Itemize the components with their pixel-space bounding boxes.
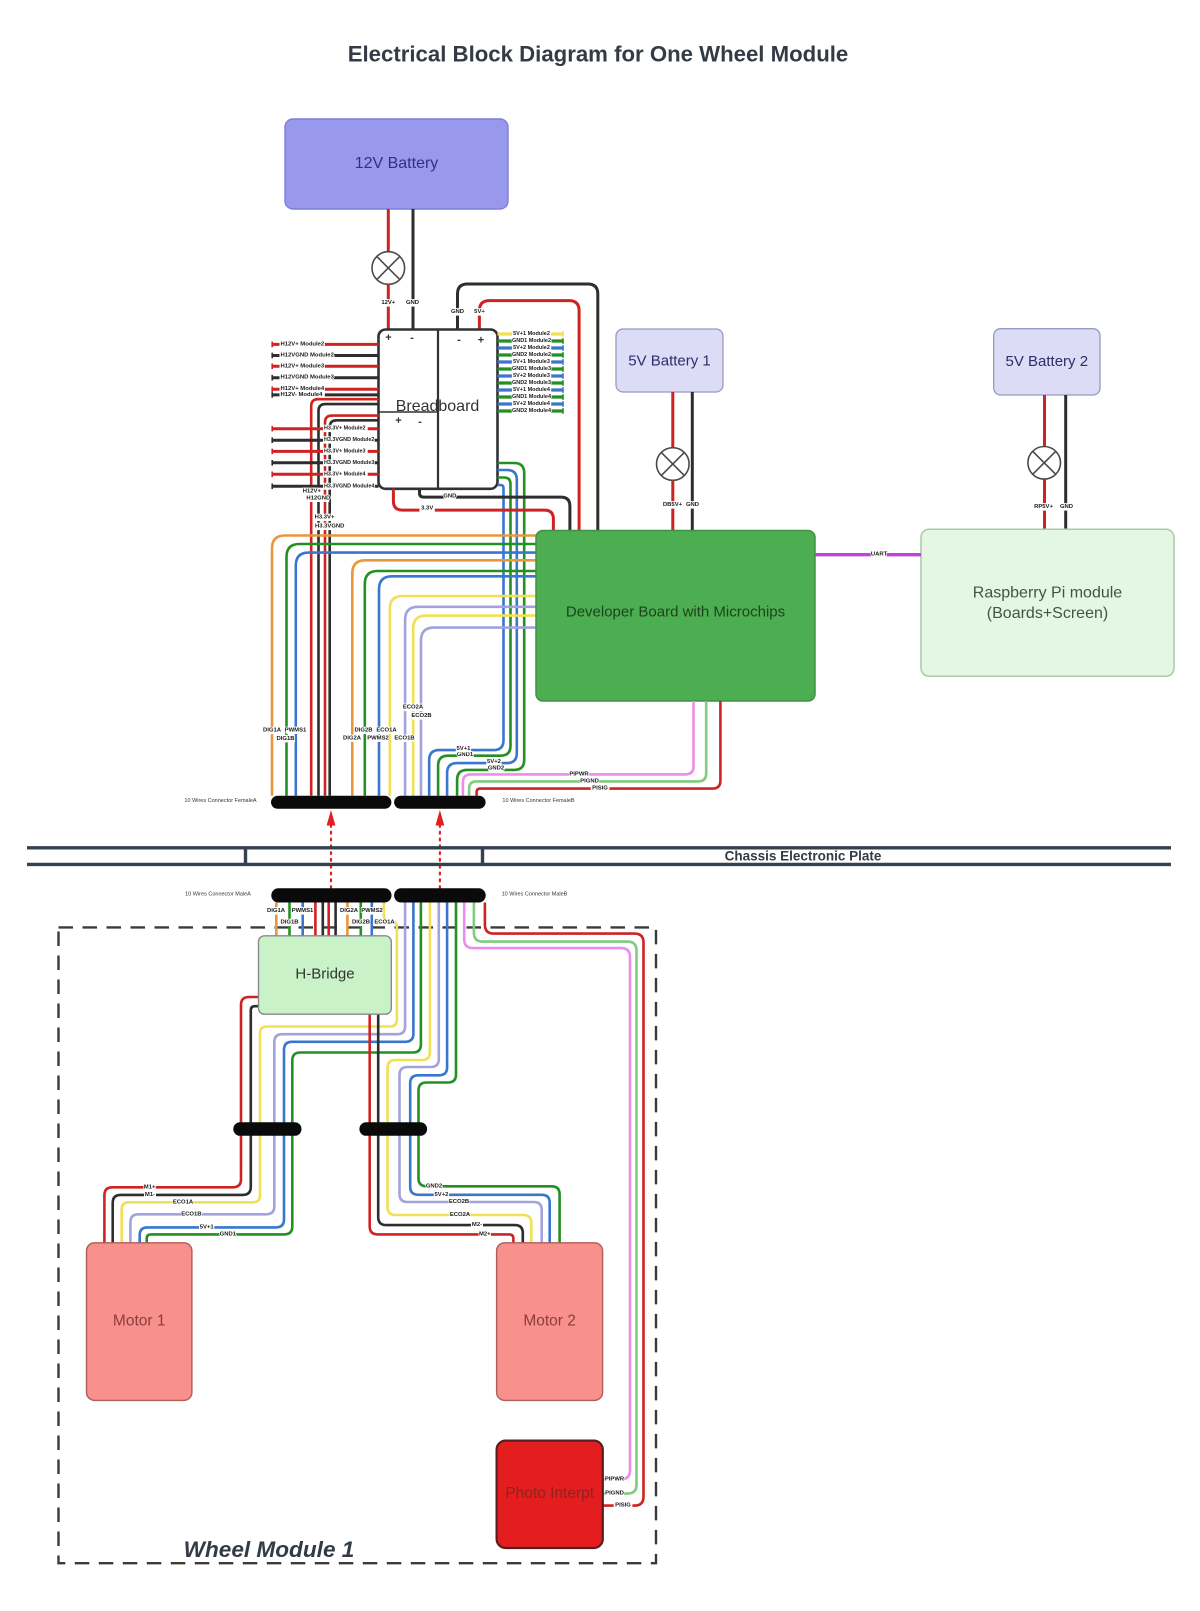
wire ECO1B purple maleB to motor 1: [130, 903, 405, 1243]
wire GND2 green maleB to motor 2: [419, 903, 560, 1243]
label DIG2A: [343, 735, 362, 742]
wire M2+ red H-bridge to motor 2: [370, 1014, 514, 1243]
label PWMS2: [363, 907, 382, 914]
svg-text:H3.3V+ Module4: H3.3V+ Module4: [324, 471, 366, 477]
wire GND2 Module4: [498, 409, 564, 412]
wire DIG2B maleA to H-bridge: [359, 903, 362, 936]
svg-text:ECO2B: ECO2B: [411, 713, 431, 719]
wire H3.3VGND Module2: [272, 439, 379, 442]
wire ECO1A developer board to connector: [390, 596, 537, 796]
label GND: [444, 493, 456, 500]
svg-text:3.3V: 3.3V: [421, 506, 433, 512]
wire ECO2A developer board to connector: [413, 616, 537, 796]
svg-text:DIG2B: DIG2B: [352, 920, 370, 926]
svg-text:GND2 Module2: GND2 Module2: [512, 352, 551, 358]
svg-text:PIPWR: PIPWR: [605, 1476, 625, 1482]
label H3.3V+ Module3: [323, 448, 368, 455]
svg-text:5V+1 Module2: 5V+1 Module2: [513, 331, 550, 337]
svg-text:+: +: [395, 415, 401, 427]
svg-text:H3.3V+ Module3: H3.3V+ Module3: [324, 448, 366, 454]
svg-text:DIG2A: DIG2A: [340, 908, 359, 914]
5V Battery 2 box: [994, 329, 1100, 395]
svg-text:ECO1B: ECO1B: [394, 735, 414, 741]
svg-text:ECO1A: ECO1A: [376, 728, 397, 734]
wire GND1 Module2: [498, 339, 564, 342]
svg-text:GND2 Module3: GND2 Module3: [512, 380, 551, 386]
label PIPWR: [605, 1476, 624, 1483]
svg-text:5V+2: 5V+2: [487, 759, 502, 765]
svg-text:5V Battery 1: 5V Battery 1: [628, 353, 711, 370]
wire H12GND bus: [319, 404, 379, 796]
wire GND1 breadboard to connector B: [438, 478, 510, 796]
svg-text:M2-: M2-: [472, 1222, 482, 1228]
svg-text:PIPWR: PIPWR: [569, 771, 589, 777]
svg-text:PWMS2: PWMS2: [367, 735, 389, 741]
wire H12V+ Module3: [272, 365, 379, 368]
svg-text:GND: GND: [1060, 504, 1073, 510]
svg-text:PWMS2: PWMS2: [361, 908, 383, 914]
label H3.3VGND Module2: [323, 437, 374, 444]
10 wires connector FemaleA: [271, 796, 391, 809]
wire PWMS1 maleA to H-bridge: [301, 903, 304, 936]
wire DIG1B maleA to H-bridge: [288, 903, 291, 936]
svg-text:H12VGND Module2: H12VGND Module2: [281, 353, 335, 359]
10 wires connector MaleA: [271, 888, 391, 902]
wire RP5V+ red battery2 to fuse F3: [1043, 395, 1046, 446]
label GND2: [426, 1183, 441, 1190]
svg-text:GND1 Module4: GND1 Module4: [512, 394, 552, 400]
wire 5V+1 blue maleB to motor 1: [140, 903, 414, 1243]
label M2-: [471, 1221, 483, 1228]
fuse F3: [1028, 447, 1061, 480]
svg-text:5V+1: 5V+1: [200, 1224, 215, 1230]
wire PISIG red dev board to connector B: [477, 701, 721, 796]
label M2+: [479, 1231, 491, 1238]
wire H12V- Module4: [272, 393, 379, 396]
label PWMS1: [286, 727, 305, 734]
svg-text:DIG1A: DIG1A: [263, 728, 282, 734]
label UART: [871, 551, 886, 558]
label H3.3V+ Module2: [323, 425, 368, 432]
wire 5V+2 blue maleB to motor 2: [410, 903, 550, 1243]
wire H3.3V+ Module4: [272, 473, 379, 476]
label 3.3V: [420, 505, 435, 512]
svg-text:H12V- Module4: H12V- Module4: [281, 392, 324, 398]
svg-text:GND1: GND1: [220, 1231, 237, 1237]
wire PIPWR pink maleB to photo interrupt: [464, 903, 630, 1480]
wire 5V+2 Module3: [498, 374, 564, 377]
svg-text:5V+2 Module3: 5V+2 Module3: [513, 373, 550, 379]
svg-text:10 Wires Connector MaleA: 10 Wires Connector MaleA: [185, 891, 251, 897]
label GND1: [220, 1231, 235, 1238]
label PIGND: [580, 778, 599, 785]
label ECO2A: [404, 704, 423, 711]
wire DIG2A maleA to H-bridge: [346, 903, 349, 936]
10 wires connector MaleB: [394, 888, 486, 902]
svg-text:UART: UART: [871, 552, 888, 558]
label 10 Wires Connector MaleA: [183, 891, 254, 898]
svg-text:ECO2A: ECO2A: [403, 705, 424, 711]
label ECO1A: [377, 727, 396, 734]
label ECO1A: [174, 1199, 193, 1206]
svg-text:-: -: [410, 332, 414, 344]
svg-text:Motor 1: Motor 1: [113, 1313, 166, 1330]
wire 5V+2 breadboard to connector B: [447, 470, 517, 796]
label DIG2B: [352, 919, 371, 926]
red dashed arrow: [439, 825, 441, 888]
wire H3.3V+ bus: [325, 416, 379, 796]
label 5V+1: [199, 1224, 214, 1231]
svg-text:(Boards+Screen): (Boards+Screen): [987, 605, 1108, 622]
svg-text:DIG1A: DIG1A: [267, 908, 286, 914]
wire PWMS2 maleA to H-bridge: [370, 903, 373, 936]
fuse F1: [372, 252, 405, 285]
label 5V+2: [434, 1191, 449, 1198]
svg-text:Motor 2: Motor 2: [523, 1313, 576, 1330]
label 5V+: [474, 308, 486, 315]
wire H12V+ maleA to H-bridge: [314, 903, 317, 936]
wire DIG1A developer board to connector: [272, 536, 537, 796]
wire H3.3VGND Module3: [272, 461, 379, 464]
svg-text:PISIG: PISIG: [615, 1503, 631, 1509]
label DIG1A: [267, 907, 286, 914]
svg-text:-: -: [418, 416, 422, 428]
label 12V+: [381, 299, 396, 306]
label PISIG: [591, 785, 610, 792]
svg-text:5V+1 Module4: 5V+1 Module4: [513, 387, 551, 393]
label ECO2B: [412, 712, 431, 719]
svg-text:DIG1B: DIG1B: [280, 920, 298, 926]
svg-text:PIGND: PIGND: [580, 778, 599, 784]
label M1-: [144, 1191, 156, 1198]
wire 12V+ red from fuse F1 to breadboard: [387, 284, 390, 330]
svg-text:12V Battery: 12V Battery: [355, 155, 439, 172]
wire ECO2B purple maleB to motor 2: [400, 903, 542, 1243]
label M1+: [144, 1184, 156, 1191]
svg-text:5V+1 Module3: 5V+1 Module3: [513, 359, 550, 365]
Photo Interrupt box: [497, 1441, 603, 1548]
svg-text:H-Bridge: H-Bridge: [295, 966, 354, 983]
wire 5V+2 Module2: [498, 346, 564, 349]
wire GND1 green maleB to motor 1: [147, 903, 421, 1243]
svg-text:H3.3VGND Module2: H3.3VGND Module2: [324, 437, 374, 443]
svg-text:GND: GND: [443, 494, 456, 500]
wire GND black battery1 to developer board: [691, 392, 694, 531]
label DIG2A: [340, 907, 359, 914]
wire H12V+ bus: [311, 399, 378, 796]
svg-text:GND: GND: [406, 300, 419, 306]
svg-text:Breadboard: Breadboard: [396, 398, 480, 415]
svg-text:ECO2A: ECO2A: [450, 1212, 471, 1218]
svg-text:GND2 Module4: GND2 Module4: [512, 408, 552, 414]
label PISIG: [614, 1502, 633, 1509]
label GND: [687, 501, 699, 508]
svg-text:H12V+ Module2: H12V+ Module2: [281, 341, 325, 347]
svg-text:H3.3V+: H3.3V+: [315, 515, 335, 521]
label 10 Wires Connector FemaleA: [182, 798, 258, 805]
label GND2: [488, 765, 503, 772]
Motor 2 box: [497, 1243, 603, 1401]
wire GND2 breadboard to connector B: [457, 463, 524, 796]
svg-text:DB5V+: DB5V+: [663, 502, 683, 508]
wire H3.3VGND maleA to H-bridge: [334, 903, 337, 936]
svg-text:Photo Interpt: Photo Interpt: [505, 1485, 594, 1502]
label PIGND: [605, 1490, 624, 1497]
label 5V+2: [486, 758, 501, 765]
chassis tick 1: [244, 848, 247, 865]
raspberry pi box: [921, 529, 1174, 676]
label 10 Wires Connector FemaleB: [500, 798, 576, 805]
svg-text:M1+: M1+: [144, 1184, 156, 1190]
wire GND black from breadboard right half up/over to developer board: [458, 284, 598, 531]
label DIG2B: [354, 727, 373, 734]
wire 5V+2 Module4: [498, 402, 564, 405]
wire 12V+ red from battery to fuse F1: [387, 209, 390, 252]
wire PWMS2 developer board to connector: [379, 576, 537, 796]
svg-text:H12V+: H12V+: [303, 488, 322, 494]
wire 5V+1 breadboard to connector B: [429, 485, 503, 796]
svg-text:Electrical Block Diagram for O: Electrical Block Diagram for One Wheel M…: [348, 42, 849, 67]
label H3.3V+: [314, 514, 336, 521]
svg-text:+: +: [478, 334, 484, 346]
svg-text:5V+1: 5V+1: [457, 746, 472, 752]
svg-text:H12V+ Module3: H12V+ Module3: [281, 363, 325, 369]
wire H12VGND Module3: [272, 376, 379, 379]
svg-text:Developer Board with Microchip: Developer Board with Microchips: [566, 604, 785, 621]
wire PIPWR pink dev board to connector B: [463, 701, 694, 796]
svg-text:H3.3VGND: H3.3VGND: [315, 524, 344, 530]
svg-text:5V+: 5V+: [474, 309, 485, 315]
label GND: [407, 299, 419, 306]
wire DIG2B developer board to connector: [365, 571, 537, 796]
label GND (breadboard right): [452, 308, 464, 315]
breadboard left horizontal divider: [379, 411, 439, 413]
label ECO1B: [182, 1211, 201, 1218]
svg-text:GND: GND: [451, 309, 464, 315]
wire DIG1A maleA to H-bridge: [275, 903, 278, 936]
wire H12GND maleA to H-bridge: [321, 903, 324, 936]
label 5V+1: [456, 745, 471, 752]
wire H3.3V+ maleA to H-bridge: [327, 903, 330, 936]
svg-text:ECO2B: ECO2B: [449, 1199, 469, 1205]
svg-text:GND: GND: [686, 502, 699, 508]
label PWMS1: [293, 907, 312, 914]
breadboard box: [379, 330, 498, 489]
wire 5V+ red from breadboard right half up/over to developer board: [479, 301, 579, 531]
5V Battery 1 box: [616, 329, 723, 392]
6 wires mini connector B: [359, 1122, 427, 1136]
svg-text:RP5V+: RP5V+: [1034, 504, 1053, 510]
wire PISIG red maleB to photo interrupt: [485, 903, 644, 1506]
svg-text:10 Wires Connector FemaleB: 10 Wires Connector FemaleB: [502, 798, 574, 804]
12V Battery box: [285, 119, 508, 209]
svg-text:PWMS1: PWMS1: [285, 728, 307, 734]
wire H12V+ Module2: [272, 343, 379, 346]
chassis electronic plate line bottom: [27, 863, 1171, 866]
wire DIG2A developer board to connector: [352, 560, 537, 796]
wire DIG1B developer board to connector: [287, 544, 538, 796]
wire GND black breadboard bottom to developer board: [420, 489, 570, 531]
svg-text:ECO1A: ECO1A: [173, 1199, 194, 1205]
chassis tick 2: [481, 848, 484, 865]
wire GND black from battery to breadboard: [412, 209, 415, 331]
svg-text:H12GND: H12GND: [306, 495, 330, 501]
label PIPWR: [570, 771, 589, 778]
label GND1: [457, 751, 472, 758]
wire GND1 Module3: [498, 367, 564, 370]
wire DB5V+ red fuse F2 to developer board: [671, 481, 674, 531]
wire H3.3VGND bus: [330, 420, 379, 796]
wire M1+ red H-bridge to motor 1: [104, 997, 259, 1243]
label H3.3VGND Module3: [323, 460, 374, 467]
label H3.3VGND: [315, 523, 344, 530]
svg-text:ECO1A: ECO1A: [374, 920, 395, 926]
label H3.3V+ Module4: [323, 471, 368, 478]
label H12GND: [307, 495, 329, 502]
fuse F2: [657, 448, 690, 481]
svg-text:DIG1B: DIG1B: [276, 736, 294, 742]
label ECO1A: [375, 919, 394, 926]
label DIG1B: [276, 735, 295, 742]
svg-text:M2+: M2+: [479, 1231, 491, 1237]
wire DB5V+ red battery1 to fuse F2: [671, 392, 674, 447]
svg-text:+: +: [385, 332, 391, 344]
wire H12VGND Module2: [272, 354, 379, 357]
wheel module 1 dashed border: [59, 927, 657, 1563]
svg-text:H12VGND Module3: H12VGND Module3: [281, 375, 335, 381]
breadboard middle divider: [437, 330, 439, 489]
wire 5V+1 Module3: [498, 360, 564, 363]
red dashed arrow: [330, 825, 332, 888]
svg-text:PWMS1: PWMS1: [292, 908, 314, 914]
label DIG1B: [280, 919, 299, 926]
label DIG1A: [263, 727, 282, 734]
H-Bridge box: [259, 936, 392, 1014]
wire ECO1A yellow maleA to motor 1: [122, 903, 397, 1243]
wire M1- black H-bridge to motor 1: [113, 1006, 259, 1243]
wire RP5V+ red fuse F3 to raspberry pi: [1043, 479, 1046, 529]
svg-text:H3.3V+ Module2: H3.3V+ Module2: [324, 426, 366, 432]
label RP5V+: [1034, 503, 1053, 510]
svg-text:Wheel Module 1: Wheel Module 1: [184, 1537, 355, 1562]
wire PIGND light green dev board to connector B: [469, 701, 706, 796]
label ECO2A: [451, 1211, 470, 1218]
svg-text:10 Wires Connector FemaleA: 10 Wires Connector FemaleA: [184, 798, 256, 804]
svg-text:H3.3VGND Module4: H3.3VGND Module4: [324, 483, 374, 489]
Motor 1 box: [87, 1243, 192, 1401]
label H12V+: [303, 488, 322, 495]
wire GND black battery2 to raspberry pi: [1064, 395, 1067, 529]
wire 5V+1 Module4: [498, 388, 564, 391]
wire 5V+1 Module2: [498, 332, 564, 335]
svg-text:M1-: M1-: [145, 1192, 155, 1198]
wire M2- black H-bridge to motor 2: [378, 1014, 523, 1243]
10 wires connector FemaleB: [394, 796, 486, 809]
wire H12V+ Module4: [272, 388, 379, 391]
wire H3.3VGND Module4: [272, 485, 379, 488]
label PWMS2: [369, 735, 388, 742]
wire GND1 Module4: [498, 395, 564, 398]
developer board box: [536, 531, 815, 702]
svg-text:10 Wires Connector MaleB: 10 Wires Connector MaleB: [502, 891, 568, 897]
6 wires mini connector A: [233, 1122, 301, 1136]
label DB5V+: [663, 501, 682, 508]
label H3.3VGND Module4: [323, 483, 374, 490]
wire GND2 Module3: [498, 381, 564, 384]
svg-text:Chassis Electronic Plate: Chassis Electronic Plate: [725, 849, 882, 864]
wire ECO2B developer board to connector: [421, 628, 537, 796]
label GND (pi): [1061, 503, 1073, 510]
svg-text:H3.3VGND Module3: H3.3VGND Module3: [324, 460, 374, 466]
svg-text:GND2: GND2: [426, 1183, 443, 1189]
wire ECO2A yellow maleB to motor 2: [388, 903, 532, 1243]
wire 3.3V red breadboard bottom to developer board: [393, 489, 553, 531]
svg-text:5V+2 Module4: 5V+2 Module4: [513, 401, 551, 407]
svg-text:GND1 Module2: GND1 Module2: [512, 338, 551, 344]
svg-text:GND2: GND2: [488, 765, 505, 771]
label 10 Wires Connector MaleB: [499, 891, 570, 898]
wire GND2 Module2: [498, 353, 564, 356]
svg-text:PIGND: PIGND: [605, 1491, 624, 1497]
wire H3.3V+ Module2: [272, 427, 379, 430]
svg-text:-: -: [457, 334, 461, 346]
svg-text:DIG2B: DIG2B: [354, 728, 372, 734]
svg-text:5V+2: 5V+2: [435, 1192, 450, 1198]
wire PWMS1 developer board to connector: [296, 553, 537, 796]
svg-text:GND1 Module3: GND1 Module3: [512, 366, 551, 372]
wire H3.3V+ Module3: [272, 450, 379, 453]
svg-text:PISIG: PISIG: [592, 786, 608, 792]
chassis electronic plate line top: [27, 846, 1171, 849]
svg-text:DIG2A: DIG2A: [343, 735, 362, 741]
svg-text:GND1: GND1: [457, 752, 474, 758]
wire PIGND light green maleB to photo interrupt: [474, 903, 637, 1494]
svg-text:Raspberry Pi module: Raspberry Pi module: [973, 585, 1123, 602]
svg-text:5V+2 Module2: 5V+2 Module2: [513, 345, 550, 351]
label ECO1B: [395, 735, 414, 742]
svg-text:ECO1B: ECO1B: [181, 1211, 201, 1217]
svg-text:5V Battery 2: 5V Battery 2: [1006, 353, 1089, 370]
label ECO2B: [450, 1198, 469, 1205]
wire ECO1B developer board to connector: [405, 607, 537, 796]
svg-text:12V+: 12V+: [381, 300, 395, 306]
wire UART magenta: [815, 553, 921, 556]
